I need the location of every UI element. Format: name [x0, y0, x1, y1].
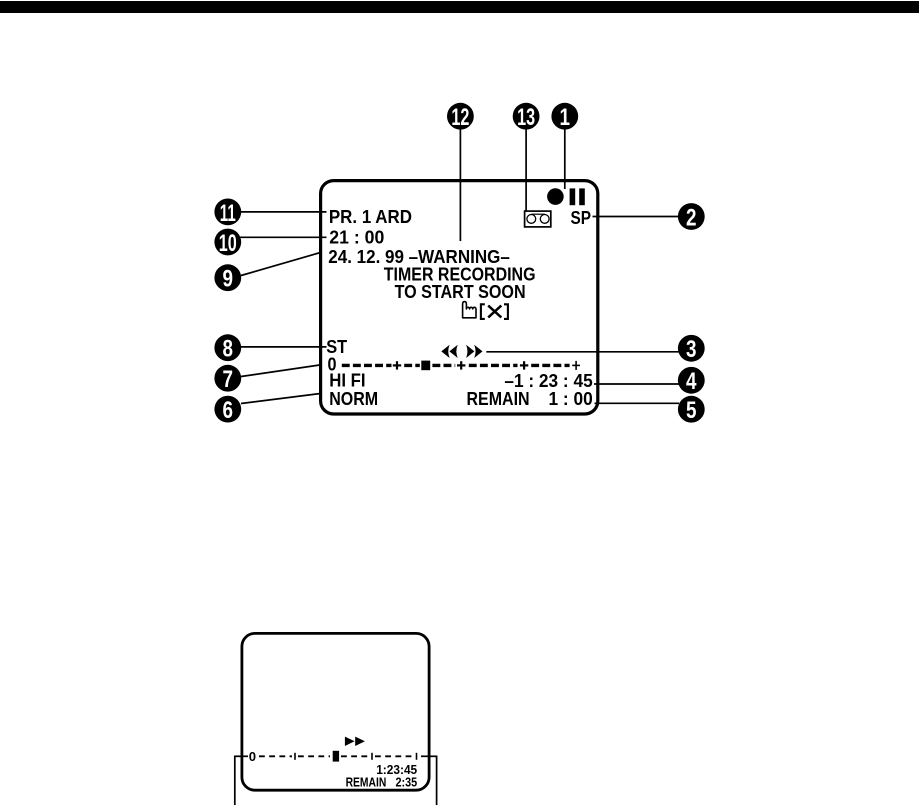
svg-text:TO START SOON: TO START SOON — [395, 281, 526, 302]
svg-text:SP: SP — [571, 207, 592, 228]
svg-text:REMAIN: REMAIN — [346, 775, 387, 789]
svg-text:2: 2 — [686, 204, 697, 231]
svg-text:9: 9 — [223, 266, 234, 293]
svg-text:2:35: 2:35 — [396, 775, 418, 789]
svg-text:10: 10 — [219, 230, 237, 257]
svg-text:1: 1 — [560, 104, 571, 131]
svg-text:11: 11 — [220, 200, 236, 227]
svg-text:8: 8 — [223, 336, 234, 363]
svg-text:1 : 00: 1 : 00 — [549, 388, 593, 409]
svg-text:PR. 1 ARD: PR. 1 ARD — [329, 206, 412, 227]
svg-text:21 : 00: 21 : 00 — [329, 227, 384, 248]
svg-text:6: 6 — [223, 397, 234, 424]
svg-text:3: 3 — [686, 336, 697, 363]
svg-text:5: 5 — [686, 397, 697, 424]
svg-text:REMAIN: REMAIN — [467, 388, 530, 409]
svg-text:4: 4 — [686, 368, 697, 395]
svg-text:7: 7 — [223, 366, 234, 393]
svg-text:NORM: NORM — [329, 388, 378, 409]
svg-text:13: 13 — [517, 104, 535, 131]
svg-text:0: 0 — [249, 749, 256, 764]
svg-text:12: 12 — [451, 104, 469, 131]
